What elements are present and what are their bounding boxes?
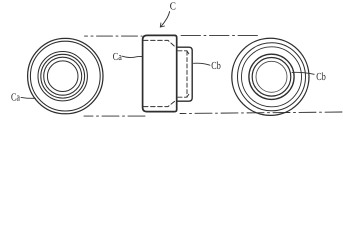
hidden line boss bottom inner bbox=[178, 96, 187, 98]
dash-dot centerline top left segment bbox=[85, 35, 143, 37]
left bearing inner ring circle 1 bbox=[38, 51, 87, 100]
leader line for left label Ca bbox=[21, 96, 35, 99]
svg-text:C: C bbox=[170, 0, 176, 12]
label C bbox=[170, 0, 176, 12]
right bearing inner ring circle 2 bbox=[252, 58, 291, 97]
hidden line boss inner vertical bbox=[186, 51, 188, 97]
svg-text:Ca: Ca bbox=[11, 92, 20, 104]
left bearing inner ring circle 3 bbox=[44, 57, 82, 95]
svg-text:Cb: Cb bbox=[211, 60, 220, 72]
right bearing outer ring inner circle bbox=[238, 43, 306, 111]
label Cb right bbox=[316, 71, 325, 83]
leader line for middle label Cb bbox=[194, 63, 210, 65]
label Cb middle bbox=[211, 60, 220, 72]
left bearing view outer circle bbox=[28, 38, 103, 113]
right bearing mid circle bbox=[242, 47, 302, 107]
leader line for middle label Ca bbox=[122, 56, 142, 57]
right bearing bore circle bbox=[256, 61, 287, 92]
left bearing outer ring inner circle bbox=[30, 41, 100, 111]
svg-text:Cb: Cb bbox=[316, 71, 325, 83]
label Ca left bbox=[11, 92, 20, 104]
right bearing inner ring circle 1 bbox=[249, 54, 294, 99]
roller body side view outline bbox=[143, 35, 177, 111]
left bearing bore circle bbox=[47, 61, 78, 92]
roller boss outline bbox=[177, 47, 193, 101]
dash-dot centerline bottom left segment bbox=[84, 115, 147, 117]
dash-dot centerline top right segment bbox=[181, 34, 258, 36]
right bearing view outer circle bbox=[232, 38, 309, 115]
leader line for right label Cb bbox=[292, 72, 314, 74]
hidden line top bore edge bbox=[144, 40, 176, 47]
hidden line boss bottom chamfer bbox=[187, 93, 190, 97]
leader line for label C with arrowhead bbox=[161, 12, 169, 27]
hidden line boss top chamfer bbox=[187, 51, 190, 55]
label Ca middle bbox=[113, 51, 122, 63]
svg-text:Ca: Ca bbox=[113, 51, 122, 63]
hidden line bottom bore edge bbox=[144, 101, 176, 107]
dash-dot centerline bottom right segment bbox=[180, 112, 343, 114]
hidden line boss top inner bbox=[178, 50, 187, 52]
left bearing inner ring circle 2 bbox=[41, 54, 85, 98]
